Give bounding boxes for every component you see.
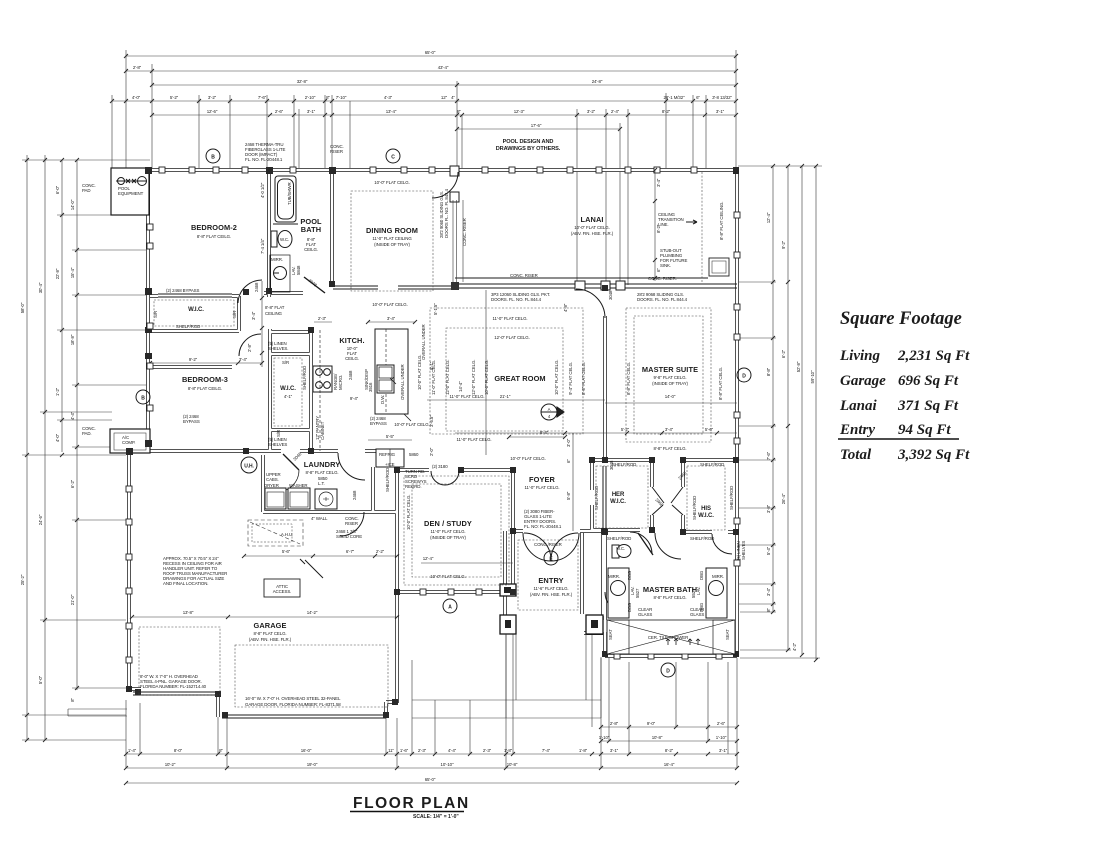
svg-text:11'-0" FLAT CELG.: 11'-0" FLAT CELG. (456, 437, 491, 442)
svg-text:4'-1": 4'-1" (284, 394, 293, 399)
svg-text:DRYER: DRYER (264, 483, 279, 488)
svg-text:SHELF/ROD: SHELF/ROD (612, 462, 636, 467)
svg-text:13'-4": 13'-4" (386, 109, 397, 114)
svg-text:SCALE: 1/4" = 1'-0": SCALE: 1/4" = 1'-0" (413, 814, 459, 820)
svg-text:(ABV. FIN. HSE. FLR.): (ABV. FIN. HSE. FLR.) (571, 231, 614, 236)
svg-text:4'-0": 4'-0" (132, 95, 141, 100)
svg-text:10'-0" FLAT CELG.: 10'-0" FLAT CELG. (374, 180, 409, 185)
svg-text:8'-8" FLAT CELG.: 8'-8" FLAT CELG. (653, 595, 686, 600)
svg-text:(ABV. FIN. HSE. FLR.): (ABV. FIN. HSE. FLR.) (249, 637, 292, 642)
svg-text:Square Footage: Square Footage (840, 309, 962, 329)
svg-text:DEN / STUDY: DEN / STUDY (424, 519, 472, 528)
svg-text:DOORS. FL. NO. FL 844.4: DOORS. FL. NO. FL 844.4 (637, 297, 688, 302)
svg-text:8'-8": 8'-8" (766, 367, 771, 376)
svg-text:7'-4 1/4": 7'-4 1/4" (260, 238, 265, 254)
svg-text:GREAT ROOM: GREAT ROOM (494, 374, 545, 383)
svg-text:5848: 5848 (296, 265, 301, 275)
svg-text:9'-0": 9'-0" (647, 721, 656, 726)
svg-text:2,231 Sq Ft: 2,231 Sq Ft (897, 348, 970, 364)
svg-text:SHELF/ROD: SHELF/ROD (692, 496, 697, 520)
svg-text:2'-6": 2'-6" (717, 721, 726, 726)
svg-text:DBG: DBG (699, 570, 704, 580)
svg-text:8'-8" FLAT CELG.: 8'-8" FLAT CELG. (581, 362, 586, 395)
svg-text:3'-2": 3'-2" (587, 109, 596, 114)
svg-text:696 Sq Ft: 696 Sq Ft (898, 373, 959, 389)
svg-text:11'-0" FLAT CELG.: 11'-0" FLAT CELG. (524, 485, 559, 490)
svg-text:10'-0" FLAT CELG.: 10'-0" FLAT CELG. (372, 302, 407, 307)
svg-text:(INSIDE OF TRAY): (INSIDE OF TRAY) (430, 535, 466, 540)
svg-text:1'-8": 1'-8" (579, 748, 588, 753)
svg-text:11'-0" FLAT CEILING: 11'-0" FLAT CEILING (372, 236, 412, 241)
svg-text:GLASS: GLASS (638, 612, 652, 617)
svg-text:REFRIG: REFRIG (379, 452, 396, 457)
svg-text:3'-8": 3'-8" (766, 504, 771, 513)
svg-text:DOORS FL. NO. FL 844.4: DOORS FL. NO. FL 844.4 (444, 188, 449, 238)
svg-text:3'-8 13/32": 3'-8 13/32" (712, 95, 732, 100)
svg-text:4'-3": 4'-3" (384, 95, 393, 100)
svg-text:5'-8": 5'-8" (566, 491, 571, 500)
svg-text:18'-8": 18'-8" (70, 334, 75, 345)
svg-text:9'-8" FLAT CELG.: 9'-8" FLAT CELG. (653, 375, 686, 380)
svg-text:SEAT: SEAT (725, 629, 730, 640)
svg-text:15'-4": 15'-4" (70, 267, 75, 278)
svg-text:3'-1": 3'-1" (719, 748, 728, 753)
svg-text:BYPASS: BYPASS (183, 419, 200, 424)
svg-text:8": 8" (766, 608, 771, 612)
svg-text:B: B (141, 396, 145, 402)
svg-text:CEILG.: CEILG. (304, 247, 318, 252)
svg-text:8'-8" FLAT CEILG.: 8'-8" FLAT CEILG. (188, 386, 222, 391)
svg-text:5'-4": 5'-4" (766, 546, 771, 555)
svg-text:3,392 Sq Ft: 3,392 Sq Ft (897, 447, 970, 463)
svg-text:11'-0" FLAT CELG.: 11'-0" FLAT CELG. (430, 529, 465, 534)
svg-text:6": 6" (656, 268, 661, 272)
svg-text:12'-0" FLAT CELG.: 12'-0" FLAT CELG. (445, 360, 450, 395)
svg-text:52'-8": 52'-8" (796, 361, 801, 372)
svg-text:CONC. RISER: CONC. RISER (510, 273, 538, 278)
svg-text:(INSIDE OF TRAY): (INSIDE OF TRAY) (652, 381, 688, 386)
svg-text:BEDROOM-3: BEDROOM-3 (182, 375, 228, 384)
svg-text:HIS: HIS (701, 506, 711, 512)
svg-text:W.I.C.: W.I.C. (280, 386, 296, 392)
svg-text:LANAI: LANAI (580, 215, 603, 224)
svg-text:EQUIPMENT: EQUIPMENT (118, 191, 144, 196)
svg-text:8": 8" (326, 95, 330, 100)
svg-text:3'-4": 3'-4" (766, 587, 771, 596)
svg-text:2468: 2468 (352, 490, 357, 500)
svg-text:Garage: Garage (840, 373, 886, 389)
svg-text:W.I.C.: W.I.C. (698, 513, 714, 519)
svg-text:4": 4" (451, 95, 455, 100)
svg-text:12'-3": 12'-3" (514, 109, 525, 114)
svg-text:10'-10": 10'-10" (441, 762, 454, 767)
svg-text:9'-2": 9'-2" (189, 357, 198, 362)
svg-text:SINK.: SINK. (660, 263, 671, 268)
svg-text:SHELF/ROD: SHELF/ROD (594, 486, 599, 510)
svg-text:24'-6": 24'-6" (38, 514, 43, 525)
svg-text:HER: HER (612, 492, 625, 498)
svg-text:16'-0": 16'-0" (301, 748, 312, 753)
svg-text:2'-8": 2'-8" (247, 343, 252, 352)
svg-text:9'-4" FLAT CELG.: 9'-4" FLAT CELG. (568, 362, 573, 395)
svg-text:A.H.U.: A.H.U. (281, 532, 293, 537)
svg-text:4'-4": 4'-4" (70, 411, 75, 420)
svg-text:FLOOR PLAN: FLOOR PLAN (353, 795, 470, 812)
svg-text:2'-2": 2'-2" (376, 549, 385, 554)
svg-text:SHELVES: SHELVES (268, 442, 287, 447)
svg-text:DINING ROOM: DINING ROOM (366, 226, 418, 235)
svg-text:DRAWINGS BY OTHERS.: DRAWINGS BY OTHERS. (496, 146, 561, 152)
svg-text:12": 12" (441, 95, 448, 100)
svg-text:POOL DESIGN AND: POOL DESIGN AND (503, 139, 554, 145)
svg-text:GARAGE: GARAGE (253, 621, 286, 630)
svg-text:8'-8" FLAT CELG.: 8'-8" FLAT CELG. (718, 367, 723, 400)
svg-text:26'-4": 26'-4" (781, 493, 786, 504)
svg-text:Total: Total (840, 447, 872, 463)
svg-text:2468: 2468 (348, 370, 353, 380)
svg-text:5860: 5860 (409, 452, 419, 457)
svg-text:4'-0 1/2": 4'-0 1/2" (260, 182, 265, 198)
svg-text:OVERALL UNDER: OVERALL UNDER (421, 324, 426, 360)
svg-text:11'-0" FLAT CELG.: 11'-0" FLAT CELG. (449, 394, 484, 399)
svg-text:MIRR.: MIRR. (608, 574, 620, 579)
svg-text:59'-10": 59'-10" (810, 370, 815, 383)
svg-text:17'-6": 17'-6" (531, 123, 542, 128)
svg-text:SHELVES: SHELVES (741, 541, 746, 560)
svg-text:30'-4": 30'-4" (38, 282, 43, 293)
svg-text:CEILG.: CEILG. (345, 356, 359, 361)
svg-text:16'-0" W. X 7'-0" H. OVERHEAD: 16'-0" W. X 7'-0" H. OVERHEAD STEEL 32-P… (245, 696, 341, 701)
svg-text:5527: 5527 (691, 588, 696, 598)
svg-text:CONC. RISER.: CONC. RISER. (648, 276, 677, 281)
svg-text:7'-4": 7'-4" (542, 748, 551, 753)
svg-text:10'-0" FLAT CELG.: 10'-0" FLAT CELG. (430, 574, 465, 579)
svg-text:CER. TILE SHOWER: CER. TILE SHOWER (648, 635, 688, 640)
svg-text:14'-2": 14'-2" (307, 610, 318, 615)
svg-text:3'-4": 3'-4" (251, 311, 256, 320)
svg-text:2'-6": 2'-6" (275, 109, 284, 114)
svg-text:10'-8": 10'-8" (507, 762, 518, 767)
svg-text:8": 8" (219, 748, 223, 753)
svg-text:W.I.C.: W.I.C. (610, 499, 626, 505)
svg-text:24'-8": 24'-8" (592, 79, 603, 84)
svg-text:11": 11" (388, 748, 394, 753)
svg-text:S/R: S/R (276, 430, 281, 437)
svg-text:C: C (391, 155, 395, 161)
svg-text:W.C.: W.C. (616, 546, 625, 551)
svg-text:5'-0": 5'-0" (38, 675, 43, 684)
svg-text:2'-3": 2'-3" (418, 748, 427, 753)
svg-text:7'-6": 7'-6" (258, 95, 267, 100)
svg-text:WASHER: WASHER (289, 483, 308, 488)
svg-text:U.H.: U.H. (244, 464, 254, 470)
svg-text:2468: 2468 (254, 282, 259, 292)
svg-text:FL. NO. FL-20448.1: FL. NO. FL-20448.1 (245, 157, 283, 162)
svg-text:3'-4": 3'-4" (387, 316, 396, 321)
svg-text:SINK/DISP: SINK/DISP (364, 369, 369, 390)
svg-text:4'-4": 4'-4" (448, 748, 457, 753)
svg-text:DBG: DBG (627, 602, 632, 612)
svg-text:14'-4": 14'-4" (458, 381, 463, 392)
svg-text:1'-8": 1'-8" (504, 748, 513, 753)
svg-text:2'-10": 2'-10" (305, 95, 316, 100)
svg-text:FLORIDA NUMBER: FL-152714.40: FLORIDA NUMBER: FL-152714.40 (140, 684, 207, 689)
svg-text:5'-6": 5'-6" (705, 427, 714, 432)
svg-text:SHELF/ROD: SHELF/ROD (176, 324, 200, 329)
svg-text:8'-2": 8'-2" (662, 109, 671, 114)
svg-text:SHELF/ROD: SHELF/ROD (729, 486, 734, 510)
svg-text:KITCH.: KITCH. (339, 336, 364, 345)
svg-text:28'-1 M/32": 28'-1 M/32" (663, 95, 685, 100)
svg-text:7'-6": 7'-6" (766, 451, 771, 460)
svg-text:1'-10": 1'-10" (716, 735, 727, 740)
svg-text:+ICE: +ICE (385, 462, 395, 467)
svg-text:RISER: RISER (330, 149, 343, 154)
svg-text:W.C.: W.C. (280, 237, 289, 242)
svg-text:21'-0": 21'-0" (70, 594, 75, 605)
svg-text:12'-6": 12'-6" (207, 109, 218, 114)
svg-text:21'-1": 21'-1" (500, 394, 511, 399)
svg-text:10'-8": 10'-8" (652, 735, 663, 740)
svg-text:(2) 3180: (2) 3180 (432, 464, 448, 469)
svg-text:3'-2": 3'-2" (208, 95, 217, 100)
svg-text:8'-8" FLAT CEILING.: 8'-8" FLAT CEILING. (719, 202, 724, 240)
svg-text:3'-4": 3'-4" (665, 427, 674, 432)
svg-text:MASTER BATH: MASTER BATH (643, 585, 697, 594)
svg-text:371 Sq Ft: 371 Sq Ft (897, 398, 959, 414)
svg-text:FL. NO: FL-20448.1: FL. NO: FL-20448.1 (524, 524, 562, 529)
svg-text:1'-10": 1'-10" (599, 735, 610, 740)
svg-text:D: D (666, 669, 670, 675)
svg-text:DBG: DBG (627, 570, 632, 580)
svg-text:10'-0" FLAT CELG.: 10'-0" FLAT CELG. (574, 225, 609, 230)
svg-text:3048: 3048 (608, 290, 613, 300)
svg-text:B: B (211, 155, 215, 161)
svg-text:1'-6": 1'-6" (400, 748, 409, 753)
svg-text:SHELF/ROD: SHELF/ROD (385, 468, 390, 492)
svg-text:Entry: Entry (839, 422, 875, 438)
svg-text:6'-2": 6'-2" (781, 349, 786, 358)
svg-text:5'-6": 5'-6" (282, 549, 291, 554)
svg-text:FOYER: FOYER (529, 475, 556, 484)
svg-text:MICRO.: MICRO. (338, 375, 343, 390)
svg-text:DBG: DBG (699, 602, 704, 612)
svg-text:SHELF/ROD: SHELF/ROD (700, 462, 724, 467)
svg-text:SHELF/ROD: SHELF/ROD (607, 536, 631, 541)
svg-text:8'-8" FLAT CELG.: 8'-8" FLAT CELG. (626, 362, 631, 395)
svg-text:8'-2": 8'-2" (656, 224, 661, 233)
svg-text:LAUNDRY: LAUNDRY (304, 460, 341, 469)
svg-text:65'-0": 65'-0" (425, 50, 436, 55)
svg-text:SOLID CORE: SOLID CORE (336, 534, 362, 539)
svg-text:9'-2": 9'-2" (781, 240, 786, 249)
svg-text:25'-2": 25'-2" (20, 574, 25, 585)
svg-text:CONC./RISER: CONC./RISER (534, 542, 562, 547)
svg-text:2'-3": 2'-3" (483, 748, 492, 753)
svg-text:5'-2": 5'-2" (170, 95, 179, 100)
svg-text:ENTRY: ENTRY (538, 576, 563, 585)
svg-text:2'-0": 2'-0" (429, 447, 434, 456)
svg-text:10'-0" FLAT CELG.: 10'-0" FLAT CELG. (510, 456, 545, 461)
svg-text:8'-4": 8'-4" (540, 430, 549, 435)
svg-text:Living: Living (839, 348, 880, 364)
svg-text:14'-0": 14'-0" (665, 394, 676, 399)
svg-text:65'-0": 65'-0" (425, 777, 436, 782)
svg-text:3'-4": 3'-4" (239, 357, 248, 362)
svg-text:CABINET: CABINET (320, 421, 325, 440)
svg-text:10'-0" FLAT CELG.: 10'-0" FLAT CELG. (406, 495, 411, 530)
svg-text:REQRD.: REQRD. (405, 484, 421, 489)
svg-text:8'-0": 8'-0" (174, 748, 183, 753)
svg-text:3'-6.5": 3'-6.5" (429, 415, 434, 427)
svg-text:CONC. RISER: CONC. RISER (462, 218, 467, 246)
svg-text:BEDROOM-2: BEDROOM-2 (191, 223, 237, 232)
svg-text:8": 8" (70, 698, 75, 702)
svg-text:MIRR.: MIRR. (712, 574, 724, 579)
svg-text:A: A (448, 605, 452, 611)
svg-text:3'-0": 3'-0" (566, 438, 571, 447)
svg-text:COMP.: COMP. (122, 440, 135, 445)
svg-text:22'-8": 22'-8" (55, 268, 60, 279)
svg-text:BYPASS: BYPASS (370, 421, 387, 426)
svg-text:6'-7": 6'-7" (346, 549, 355, 554)
svg-text:ACCESS.: ACCESS. (273, 589, 292, 594)
svg-text:5'-5": 5'-5" (386, 434, 395, 439)
svg-text:SHELVES.: SHELVES. (268, 346, 288, 351)
svg-text:11'-0" FLAT CELG.: 11'-0" FLAT CELG. (492, 316, 527, 321)
svg-text:S/R: S/R (232, 311, 237, 318)
svg-text:AND FINAL LOCATION.: AND FINAL LOCATION. (163, 581, 208, 586)
svg-text:10'-0" FLAT CELG.: 10'-0" FLAT CELG. (554, 360, 559, 395)
svg-text:4'-8": 4'-8" (563, 303, 568, 312)
svg-text:5'-2": 5'-2" (621, 427, 630, 432)
svg-text:8": 8" (457, 109, 461, 114)
svg-text:D.W.: D.W. (380, 395, 385, 404)
svg-text:3'-4": 3'-4" (656, 178, 661, 187)
svg-text:MIRR.: MIRR. (271, 257, 283, 262)
svg-text:10'-0" FLAT CELG.: 10'-0" FLAT CELG. (394, 422, 429, 427)
svg-text:OVERALL UNDER: OVERALL UNDER (400, 364, 405, 400)
svg-text:4'-2": 4'-2" (792, 642, 797, 651)
svg-text:TUB/SHWR: TUB/SHWR (287, 182, 292, 205)
svg-text:2'-4": 2'-4" (611, 109, 620, 114)
svg-text:S/R: S/R (282, 360, 289, 365)
svg-text:CEILING: CEILING (265, 311, 283, 316)
svg-text:12'-0" FLAT CELG.: 12'-0" FLAT CELG. (494, 335, 529, 340)
svg-text:12'-4": 12'-4" (423, 556, 434, 561)
svg-text:5527: 5527 (635, 588, 640, 598)
svg-text:Lanai: Lanai (839, 398, 878, 414)
svg-text:2'-8": 2'-8" (133, 65, 142, 70)
svg-text:8'-8" FLAT CELG.: 8'-8" FLAT CELG. (253, 631, 286, 636)
svg-text:A: A (548, 407, 551, 412)
svg-text:1'-4": 1'-4" (128, 748, 137, 753)
svg-text:L.T.: L.T. (318, 481, 325, 486)
svg-text:6": 6" (696, 95, 700, 100)
svg-text:10'-0" FLAT CELG.: 10'-0" FLAT CELG. (484, 360, 489, 395)
svg-text:1'-2": 1'-2" (55, 387, 60, 396)
svg-text:6'-2": 6'-2" (70, 479, 75, 488)
svg-text:94 Sq Ft: 94 Sq Ft (898, 422, 951, 438)
svg-text:DOORS. FL. NO. FL 844.4: DOORS. FL. NO. FL 844.4 (491, 297, 542, 302)
svg-text:2'-3": 2'-3" (318, 316, 327, 321)
svg-text:16'-4": 16'-4" (664, 762, 675, 767)
svg-text:7'-10": 7'-10" (336, 95, 347, 100)
svg-text:8'-8" FLAT: 8'-8" FLAT (265, 305, 285, 310)
svg-text:3'-1": 3'-1" (610, 748, 619, 753)
svg-text:8'-8" FLAT CEILG.: 8'-8" FLAT CEILG. (197, 234, 231, 239)
svg-text:PAD.: PAD. (82, 431, 92, 436)
svg-text:D: D (742, 374, 746, 380)
svg-text:GARAGE DOOR, FLORIDA NUMBER: F: GARAGE DOOR, FLORIDA NUMBER: FL-8371.58 (245, 702, 341, 707)
svg-text:5'-1.5": 5'-1.5" (433, 303, 438, 315)
svg-text:8'-8" FLAT CELG.: 8'-8" FLAT CELG. (305, 470, 338, 475)
svg-text:(ABV. FIN. HSE. FLR.): (ABV. FIN. HSE. FLR.) (530, 592, 573, 597)
svg-text:14'-0": 14'-0" (70, 199, 75, 210)
svg-text:(2) 2468 BYPASS: (2) 2468 BYPASS (166, 288, 199, 293)
svg-text:LAV.: LAV. (696, 587, 701, 595)
svg-text:3'-1": 3'-1" (307, 109, 316, 114)
svg-text:SHELF/ROD: SHELF/ROD (690, 536, 714, 541)
svg-text:11'-6" FLAT CELG.: 11'-6" FLAT CELG. (533, 586, 568, 591)
svg-text:12'-0" FLAT CELG.: 12'-0" FLAT CELG. (471, 360, 476, 395)
svg-text:8'-2": 8'-2" (665, 748, 674, 753)
svg-text:SEAT: SEAT (608, 629, 613, 640)
svg-text:BATH: BATH (301, 225, 321, 234)
svg-text:10'-2": 10'-2" (165, 762, 176, 767)
svg-text:(INSIDE OF TRAY): (INSIDE OF TRAY) (374, 242, 410, 247)
svg-text:8'-1": 8'-1" (429, 361, 434, 370)
svg-text:SHELF/ROD: SHELF/ROD (302, 366, 307, 390)
svg-text:2'-8": 2'-8" (610, 721, 619, 726)
svg-text:CABS.: CABS. (266, 477, 279, 482)
svg-text:43'-4": 43'-4" (438, 65, 449, 70)
svg-text:S/R: S/R (153, 311, 158, 318)
svg-text:8'-8" FLAT CELG.: 8'-8" FLAT CELG. (653, 446, 686, 451)
svg-text:12'-4": 12'-4" (766, 212, 771, 223)
svg-text:MASTER SUITE: MASTER SUITE (642, 365, 698, 374)
svg-text:4'-0": 4'-0" (55, 433, 60, 442)
svg-text:58'-0": 58'-0" (20, 302, 25, 313)
svg-text:6": 6" (566, 459, 571, 463)
svg-text:3'-1": 3'-1" (716, 109, 725, 114)
svg-text:W.I.C.: W.I.C. (188, 307, 204, 313)
svg-text:19'-0": 19'-0" (307, 762, 318, 767)
svg-text:RISER: RISER (345, 521, 358, 526)
svg-text:32'-8": 32'-8" (297, 79, 308, 84)
svg-text:4" WALL: 4" WALL (311, 516, 328, 521)
svg-text:6'-0": 6'-0" (55, 185, 60, 194)
svg-text:9'-4": 9'-4" (350, 396, 359, 401)
svg-text:13'-8": 13'-8" (183, 610, 194, 615)
svg-text:PAD: PAD (82, 188, 90, 193)
